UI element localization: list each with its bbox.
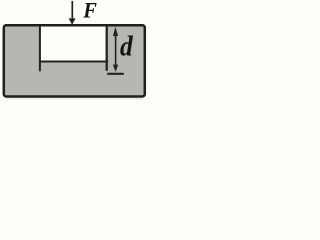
- svg-text:F: F: [82, 0, 97, 23]
- force arrow F shaft: [71, 1, 73, 19]
- cavity (white slot): [41, 27, 106, 61]
- cavity right wall: [106, 26, 108, 70]
- dimension arrowhead up: [113, 27, 118, 36]
- svg-text:d: d: [120, 30, 133, 61]
- dimension arrowhead down: [113, 65, 118, 72]
- dimension line d: [115, 31, 117, 68]
- dimension extension bar: [107, 73, 124, 75]
- cavity floor line: [39, 61, 108, 63]
- block body (gray slab with dark border): [4, 25, 145, 96]
- cavity left wall: [39, 26, 41, 71]
- background: [0, 0, 149, 102]
- force arrowhead: [69, 18, 76, 24]
- shadow under block: [6, 98, 143, 99]
